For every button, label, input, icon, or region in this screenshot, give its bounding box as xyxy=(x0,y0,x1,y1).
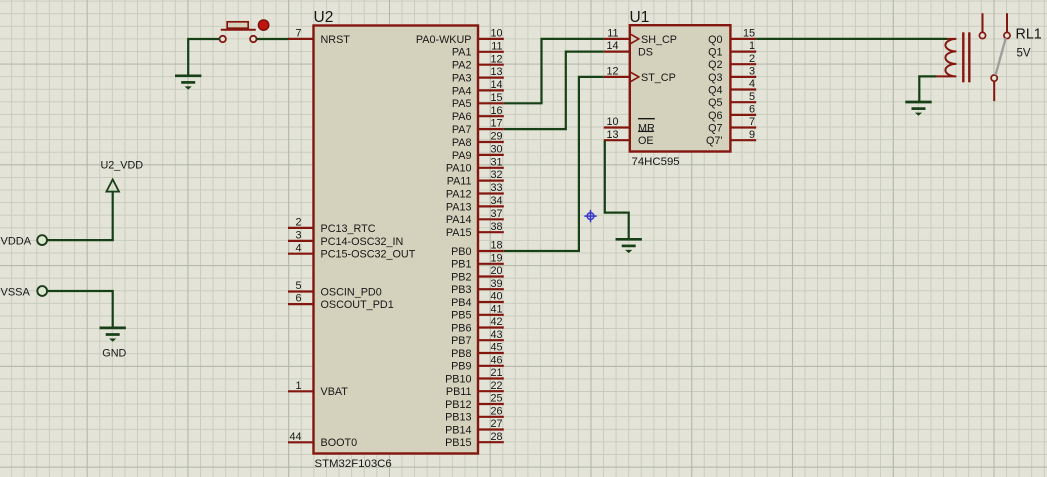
svg-text:OSCIN_PD0: OSCIN_PD0 xyxy=(321,286,382,298)
svg-text:Q6: Q6 xyxy=(708,110,722,122)
U2 pin 11 PA1 xyxy=(452,40,504,58)
svg-text:Q2: Q2 xyxy=(708,59,722,71)
relay switch common terminal (top left) xyxy=(979,13,985,38)
svg-text:9: 9 xyxy=(749,129,755,141)
svg-text:VBAT: VBAT xyxy=(321,386,349,398)
svg-text:15: 15 xyxy=(490,92,502,104)
svg-text:12: 12 xyxy=(606,66,618,78)
svg-text:PA6: PA6 xyxy=(452,111,472,123)
label U1 xyxy=(630,9,650,26)
svg-text:PC14-OSC32_IN: PC14-OSC32_IN xyxy=(321,236,404,248)
svg-text:32: 32 xyxy=(490,169,502,181)
svg-text:PA8: PA8 xyxy=(452,137,472,149)
U2 pin 5 OSCIN_PD0 xyxy=(288,280,382,298)
U2 pin 40 PB4 xyxy=(451,291,504,309)
svg-text:42: 42 xyxy=(490,316,502,328)
svg-text:ST_CP: ST_CP xyxy=(641,72,676,84)
svg-text:18: 18 xyxy=(490,240,502,252)
U2 pin 3 PC14-OSC32_IN xyxy=(288,230,403,248)
svg-text:2: 2 xyxy=(749,53,755,65)
wire button right to U2 NRST xyxy=(257,38,289,40)
svg-text:OSCOUT_PD1: OSCOUT_PD1 xyxy=(321,299,394,311)
svg-text:4: 4 xyxy=(749,78,755,90)
U1 pin 15 Q0 xyxy=(708,28,756,46)
U2 pin 1 VBAT xyxy=(288,380,348,398)
svg-text:15: 15 xyxy=(743,28,755,40)
ground below relay coil xyxy=(905,102,931,116)
svg-text:PB0: PB0 xyxy=(451,246,471,258)
U1 pin 5 Q5 xyxy=(708,91,756,109)
U1 pin 11 SH_CP (clock) xyxy=(604,28,677,46)
U2 pin 43 PB7 xyxy=(451,329,504,347)
svg-text:PB8: PB8 xyxy=(451,348,471,360)
svg-text:25: 25 xyxy=(490,393,502,405)
U1 pin 12 ST_CP (clock) xyxy=(604,66,676,84)
svg-text:U1: U1 xyxy=(630,9,650,26)
svg-text:7: 7 xyxy=(295,28,301,40)
U2 pin 20 PB2 xyxy=(451,265,504,283)
relay switch NC terminal (top right) xyxy=(1004,13,1010,38)
svg-text:3: 3 xyxy=(295,230,301,242)
U2 pin 12 PA2 xyxy=(452,53,504,71)
label 5V xyxy=(1017,48,1031,60)
svg-text:DS: DS xyxy=(638,47,653,59)
svg-text:31: 31 xyxy=(490,156,502,168)
U2 pin 37 PA14 xyxy=(446,208,504,226)
svg-text:PA1: PA1 xyxy=(452,47,472,59)
wire U1 OE to ground xyxy=(605,140,629,239)
wire U1 Q0 to relay coil xyxy=(756,38,947,40)
svg-text:PA9: PA9 xyxy=(452,150,472,162)
svg-text:20: 20 xyxy=(490,265,502,277)
wire U1 ST_CP to PB0 xyxy=(504,77,604,251)
U2 pin 34 PA13 xyxy=(446,195,504,213)
pushbutton interactive red marker xyxy=(258,20,268,30)
svg-text:27: 27 xyxy=(490,418,502,430)
svg-text:Q4: Q4 xyxy=(708,84,722,96)
U2 pin 27 PB14 xyxy=(445,418,504,436)
wire VDDA to U2_VDD arrow xyxy=(47,239,114,241)
U1 pin 6 Q6 xyxy=(708,104,756,122)
terminal VSSA xyxy=(1,286,48,298)
svg-text:PC13_RTC: PC13_RTC xyxy=(321,223,376,235)
U2 pin 22 PB11 xyxy=(446,380,504,398)
svg-text:VSSA: VSSA xyxy=(1,286,31,298)
U1 pin 13 OE (active low) xyxy=(604,129,654,147)
svg-text:PB7: PB7 xyxy=(451,335,471,347)
svg-text:Q7': Q7' xyxy=(706,135,722,147)
svg-text:28: 28 xyxy=(490,431,502,443)
svg-text:6: 6 xyxy=(749,104,755,116)
svg-text:12: 12 xyxy=(490,53,502,65)
U2 pin 25 PB12 xyxy=(445,393,504,411)
svg-text:14: 14 xyxy=(606,40,618,52)
label U2 xyxy=(314,9,334,26)
U1 pin 9 Q7' xyxy=(706,129,756,147)
svg-text:NRST: NRST xyxy=(321,34,351,46)
U2 pin 26 PB13 xyxy=(445,405,504,423)
label STM32F103C6 xyxy=(315,458,392,470)
relay switch blade xyxy=(996,38,1006,75)
svg-text:PB15: PB15 xyxy=(445,437,471,449)
svg-text:PB1: PB1 xyxy=(451,259,471,271)
wire PA7 to U1 DS xyxy=(504,52,604,130)
svg-text:2: 2 xyxy=(295,217,301,229)
svg-text:U2: U2 xyxy=(314,9,334,26)
svg-text:PB11: PB11 xyxy=(446,386,472,398)
svg-text:PA3: PA3 xyxy=(452,73,472,85)
wire button left to ground corner xyxy=(188,39,219,76)
U1 pin 10 MR (active low) xyxy=(604,116,655,134)
svg-text:PA4: PA4 xyxy=(452,85,472,97)
svg-text:7: 7 xyxy=(749,116,755,128)
pushbutton (reset) left terminal xyxy=(220,36,226,42)
svg-text:PA11: PA11 xyxy=(447,176,472,188)
svg-text:17: 17 xyxy=(490,118,502,130)
U1 pin 1 Q1 xyxy=(708,40,756,58)
svg-text:45: 45 xyxy=(490,342,502,354)
svg-text:29: 29 xyxy=(490,131,502,143)
svg-text:PA15: PA15 xyxy=(446,227,472,239)
svg-text:SH_CP: SH_CP xyxy=(641,34,677,46)
svg-text:PA12: PA12 xyxy=(446,188,472,200)
svg-text:PB5: PB5 xyxy=(451,310,471,322)
svg-text:11: 11 xyxy=(491,40,502,52)
svg-text:Q0: Q0 xyxy=(708,34,722,46)
U2 pin 18 PB0 xyxy=(451,240,504,258)
svg-text:37: 37 xyxy=(490,208,502,220)
U2 pin 7 NRST xyxy=(288,28,350,46)
svg-text:46: 46 xyxy=(490,354,502,366)
ground below VSSA wire xyxy=(100,328,126,342)
svg-text:PB13: PB13 xyxy=(445,412,471,424)
svg-text:1: 1 xyxy=(295,380,301,392)
wire PA5 to U1 SH_CP xyxy=(504,39,604,103)
svg-text:PA0-WKUP: PA0-WKUP xyxy=(416,34,472,46)
relay coil bottom lead wire to ground xyxy=(919,76,936,102)
U2 pin 15 PA5 xyxy=(452,92,504,110)
svg-text:PA2: PA2 xyxy=(452,60,472,72)
svg-text:Q5: Q5 xyxy=(708,97,722,109)
svg-text:5: 5 xyxy=(295,280,301,292)
U2 pin 19 PB1 xyxy=(451,252,504,270)
svg-text:PB3: PB3 xyxy=(451,284,471,296)
U1 pin 2 Q2 xyxy=(708,53,756,71)
U2 pin 4 PC15-OSC32_OUT xyxy=(288,242,416,260)
svg-text:30: 30 xyxy=(490,144,502,156)
U2 pin 42 PB6 xyxy=(451,316,504,334)
U2 pin 33 PA12 xyxy=(446,182,504,200)
pushbutton actuator xyxy=(221,22,256,30)
pushbutton right terminal xyxy=(250,36,256,42)
svg-text:33: 33 xyxy=(490,182,502,194)
terminal VDDA xyxy=(1,235,47,247)
svg-text:GND: GND xyxy=(102,347,126,359)
svg-text:3: 3 xyxy=(749,66,755,78)
svg-text:19: 19 xyxy=(490,252,502,264)
svg-text:39: 39 xyxy=(490,278,502,290)
svg-text:PB6: PB6 xyxy=(451,322,471,334)
U2 pin 28 PB15 xyxy=(445,431,504,449)
svg-text:5: 5 xyxy=(749,91,755,103)
svg-text:PA5: PA5 xyxy=(452,98,472,110)
U2 pin 32 PA11 xyxy=(447,169,504,187)
svg-text:34: 34 xyxy=(490,195,502,207)
U2 pin 6 OSCOUT_PD1 xyxy=(288,293,394,311)
svg-text:13: 13 xyxy=(606,129,618,141)
svg-text:PB2: PB2 xyxy=(451,271,471,283)
svg-text:10: 10 xyxy=(490,28,502,40)
svg-text:PA14: PA14 xyxy=(446,214,472,226)
U2 pin 16 PA6 xyxy=(452,105,504,123)
svg-text:PA13: PA13 xyxy=(446,201,472,213)
relay RL1 coil xyxy=(936,39,956,77)
svg-text:11: 11 xyxy=(607,28,618,40)
wire VSSA to ground xyxy=(47,291,113,328)
U2 pin 14 PA4 xyxy=(452,79,504,97)
svg-text:Q3: Q3 xyxy=(708,72,722,84)
U1 pin 3 Q3 xyxy=(708,66,756,84)
svg-text:21: 21 xyxy=(490,367,502,379)
U1 pin 4 Q4 xyxy=(708,78,756,96)
svg-text:BOOT0: BOOT0 xyxy=(321,437,358,449)
svg-text:PB4: PB4 xyxy=(451,297,471,309)
U2 pin 30 PA9 xyxy=(452,144,504,162)
GND label xyxy=(102,347,126,359)
U2 pin 46 PB9 xyxy=(451,354,504,372)
svg-text:PC15-OSC32_OUT: PC15-OSC32_OUT xyxy=(321,249,416,261)
svg-text:10: 10 xyxy=(606,116,618,128)
U2 pin 38 PA15 xyxy=(446,221,504,239)
svg-text:1: 1 xyxy=(749,40,755,52)
U2 pin 10 PA0-WKUP xyxy=(416,28,504,46)
svg-text:MR: MR xyxy=(638,122,655,134)
svg-text:PB10: PB10 xyxy=(445,373,471,385)
label RL1 xyxy=(1016,27,1042,43)
svg-text:41: 41 xyxy=(490,303,502,315)
U2 pin 21 PB10 xyxy=(445,367,504,385)
svg-text:38: 38 xyxy=(490,221,502,233)
U1 pin 14 DS xyxy=(604,40,653,58)
U2 pin 44 BOOT0 xyxy=(288,431,357,449)
relay switch NO terminal (bottom) xyxy=(991,75,997,101)
IC U1 74HC595 body xyxy=(630,25,731,151)
relay core bars xyxy=(963,32,969,82)
svg-text:Q1: Q1 xyxy=(708,47,722,59)
svg-text:Q7: Q7 xyxy=(708,122,722,134)
svg-text:22: 22 xyxy=(490,380,502,392)
U2 pin 2 PC13_RTC xyxy=(288,217,376,235)
svg-text:16: 16 xyxy=(490,105,502,117)
U2 pin 31 PA10 xyxy=(446,156,504,174)
svg-text:13: 13 xyxy=(490,66,502,78)
svg-text:26: 26 xyxy=(490,405,502,417)
origin marker (blue crosshair) xyxy=(584,210,596,222)
svg-text:44: 44 xyxy=(289,431,301,443)
U2 pin 39 PB3 xyxy=(451,278,504,296)
ground under button xyxy=(175,76,201,90)
svg-text:74HC595: 74HC595 xyxy=(632,156,680,168)
svg-text:U2_VDD: U2_VDD xyxy=(101,160,144,172)
svg-text:6: 6 xyxy=(295,293,301,305)
svg-text:PB14: PB14 xyxy=(445,424,471,436)
svg-text:PA10: PA10 xyxy=(446,163,472,175)
svg-text:43: 43 xyxy=(490,329,502,341)
svg-text:STM32F103C6: STM32F103C6 xyxy=(315,458,392,470)
U2 pin 13 PA3 xyxy=(452,66,504,84)
U1 pin 7 Q7 xyxy=(708,116,756,134)
svg-text:5V: 5V xyxy=(1017,48,1031,60)
svg-text:PB12: PB12 xyxy=(445,399,471,411)
power U2_VDD arrow symbol xyxy=(106,179,119,240)
ground below U1 xyxy=(616,239,642,253)
svg-text:OE: OE xyxy=(638,135,654,147)
U2 pin 29 PA8 xyxy=(452,131,504,149)
svg-text:14: 14 xyxy=(490,79,502,91)
U2 pin 45 PB8 xyxy=(451,342,504,360)
svg-text:PA7: PA7 xyxy=(452,124,472,136)
svg-text:PB9: PB9 xyxy=(451,361,471,373)
U2 pin 41 PB5 xyxy=(451,303,504,321)
label 74HC595 xyxy=(632,156,680,168)
svg-text:4: 4 xyxy=(295,242,301,254)
svg-text:40: 40 xyxy=(490,291,502,303)
svg-text:RL1: RL1 xyxy=(1016,27,1042,43)
U2 pin 17 PA7 xyxy=(452,118,504,136)
power U2_VDD label xyxy=(101,160,144,172)
IC U2 STM32F103C6 body xyxy=(314,26,479,454)
svg-text:VDDA: VDDA xyxy=(1,236,32,248)
